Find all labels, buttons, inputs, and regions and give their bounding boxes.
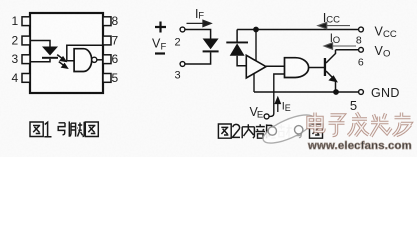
watermark text 电子发烧友 (outlined) [308,113,411,137]
wire dot to amplifier top [255,30,257,62]
watermark logo circle b [295,126,303,134]
wire emitter to GND rail [335,81,337,93]
subtle paper noise overlay [0,0,1,1]
glyph 1 [44,122,51,137]
junction dot on GND rail [333,89,339,95]
light arrow b (fig1) [59,62,67,68]
glyph 烧 outer [371,114,391,137]
glyph 图 [30,122,43,137]
pin 3 [22,55,30,64]
glyph 内 [242,124,254,138]
pin 2 [22,36,30,45]
caption fig2: 图2 内部结构图 [218,124,322,138]
IF current arrow [187,20,212,26]
pin 5 [103,74,111,83]
wire photodiode cathode to VCC rail [236,30,238,42]
wire pin2 to LED anode [30,41,50,47]
glyph 结 [271,124,285,138]
glyph 部 [256,124,272,138]
photodiode cathode bar [226,42,248,44]
wire photodiode anode to amp input [237,56,246,66]
glyph 烧 core [371,114,391,137]
transistor Q1 base bar [324,58,326,76]
glyph 构 [286,124,302,138]
GND rail [254,91,359,93]
wire terminal2 to LED anode [185,30,211,39]
NAND gate U1A (fig1) [74,49,92,72]
glyph 子 outer [329,115,345,136]
pin 7 [103,36,111,45]
light arrow a (fig1) [57,55,65,62]
wire amp output to gate input [266,65,285,67]
glyph 图 [310,124,323,138]
glyph 引 [58,122,69,137]
terminal 6 circle [359,47,364,52]
caption fig1: 图1 引脚图 [30,122,98,137]
enable wire pin7 to gate (fig1) [67,45,103,61]
photodiode triangle [230,43,245,55]
pin 8 [103,17,111,26]
watermark logo circle a [268,127,276,135]
glyph 友 core [393,113,411,136]
glyph 友 outer [393,113,411,136]
glyph 图 [218,124,231,138]
amplifier U2 triangle [246,55,266,78]
terminal VE circle (pin 7) [264,114,269,119]
wire LED cathode to pin3 [30,59,50,62]
glyph 电 outer [308,113,324,132]
terminal 5 circle [359,90,364,95]
glyph 电 core [308,113,324,132]
glyph 图 [85,122,98,137]
wire amp bottom to GND rail [253,74,255,93]
minus sign [155,52,165,54]
pin 1 [22,17,30,26]
wire bubble to pin6 [97,59,103,61]
terminal 3 circle [180,62,185,67]
VO wire collector to terminal 6 [336,49,359,51]
pin 6 [103,55,111,64]
wire LED cathode to terminal3 [185,52,211,64]
pin 4 [22,74,30,83]
wire gate output to transistor base [308,67,324,69]
glyph 脚 [70,122,84,137]
glyph 发 core [348,113,369,137]
LED D1 cathode bar (fig1) [42,57,58,59]
glyph 2 [232,124,240,137]
enable wire gate to terminal VE [269,74,284,116]
VCC rail to terminal 8 [237,29,359,31]
transistor Q1 collector [326,50,336,63]
IE current arrow [275,98,280,113]
junction dot on VCC rail [253,27,259,33]
LED D2 triangle (fig2) [203,39,219,50]
IO current arrow [324,43,356,50]
IC U1 body [30,13,103,93]
ICC current arrow [318,22,350,29]
plus sign [155,22,166,33]
transistor Q1 emitter with arrow [326,71,336,81]
LED D2 cathode bar (fig2) [203,50,219,52]
AND gate U3 (fig2) [285,58,309,78]
gate output bubble (fig1) [92,57,97,62]
glyph 子 core [329,115,345,136]
LED D1 triangle (fig1) [42,47,58,56]
watermark swoosh logo ellipse [260,109,318,148]
glyph 发 outer [348,113,369,137]
terminal 2 circle [180,27,185,32]
terminal 8 circle [359,27,364,32]
